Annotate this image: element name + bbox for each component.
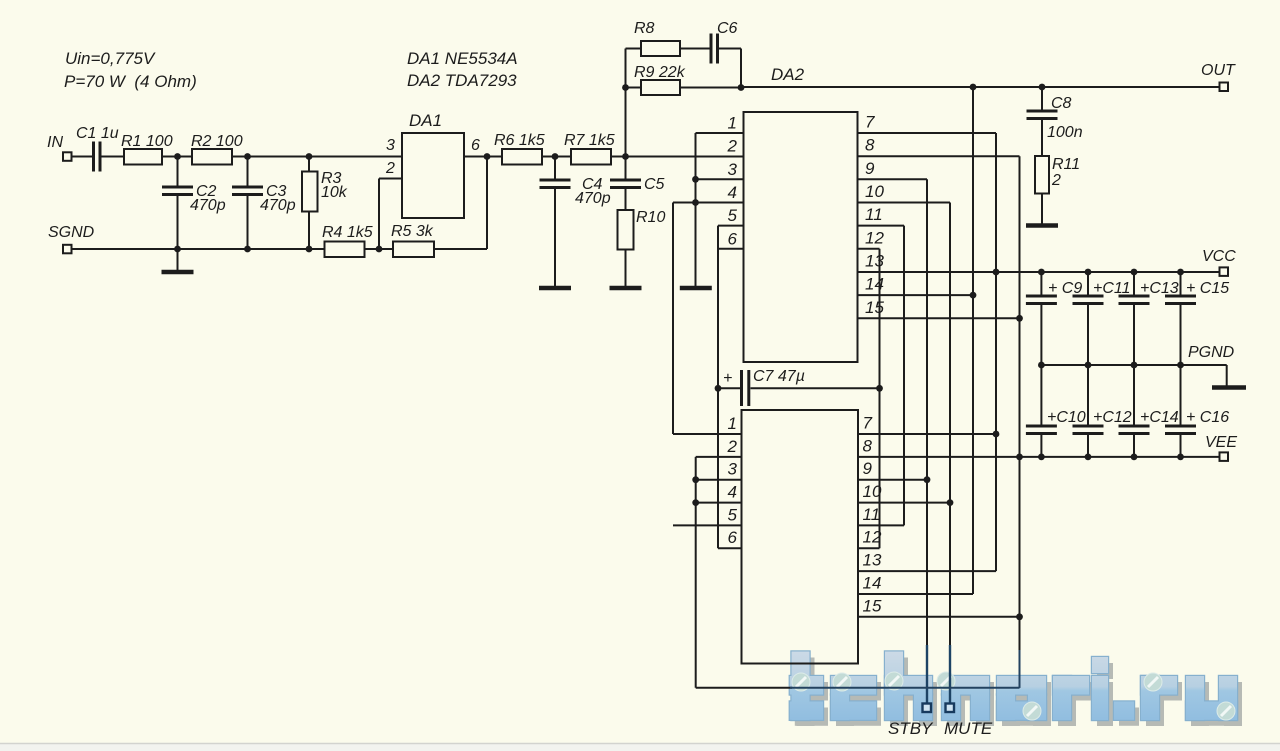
svg-text:3: 3 <box>386 137 395 154</box>
svg-text:R8: R8 <box>634 20 655 37</box>
svg-text:STBY: STBY <box>888 719 934 738</box>
svg-text:5: 5 <box>728 505 738 524</box>
svg-text:3: 3 <box>728 160 738 179</box>
svg-text:13: 13 <box>863 551 882 570</box>
svg-text:10: 10 <box>865 182 884 201</box>
svg-text:R10: R10 <box>636 209 665 226</box>
svg-text:6: 6 <box>728 528 738 547</box>
svg-text:10k: 10k <box>321 184 348 201</box>
svg-text:11: 11 <box>863 505 881 524</box>
svg-text:+ C16: + C16 <box>1186 409 1229 426</box>
svg-text:15: 15 <box>863 596 882 615</box>
svg-text:470p: 470p <box>190 197 226 214</box>
svg-text:PGND: PGND <box>1188 344 1235 361</box>
svg-text:R2 100: R2 100 <box>191 133 243 150</box>
svg-text:VEE: VEE <box>1205 434 1237 451</box>
svg-text:IN: IN <box>47 134 63 151</box>
svg-text:C8: C8 <box>1051 95 1072 112</box>
svg-text:R6 1k5: R6 1k5 <box>494 132 545 149</box>
svg-text:VCC: VCC <box>1202 248 1236 265</box>
svg-text:12: 12 <box>865 228 884 247</box>
svg-text:+C10: +C10 <box>1047 409 1086 426</box>
svg-text:C5: C5 <box>644 176 665 193</box>
svg-text:8: 8 <box>865 136 875 155</box>
svg-text:SGND: SGND <box>48 224 95 241</box>
svg-text:DA1: DA1 <box>409 111 442 130</box>
svg-text:8: 8 <box>863 436 873 455</box>
svg-text:470p: 470p <box>575 190 611 207</box>
svg-text:11: 11 <box>865 205 883 224</box>
svg-text:9: 9 <box>865 159 875 178</box>
svg-text:4: 4 <box>728 183 737 202</box>
svg-text:P=70 W (4 Ohm): P=70 W (4 Ohm) <box>64 72 197 91</box>
svg-text:2: 2 <box>385 160 395 177</box>
svg-text:DA2: DA2 <box>771 65 805 84</box>
svg-text:R9 22k: R9 22k <box>634 64 686 81</box>
svg-text:5: 5 <box>728 206 738 225</box>
svg-text:OUT: OUT <box>1201 62 1236 79</box>
svg-text:470p: 470p <box>260 197 296 214</box>
svg-text:Uin=0,775V: Uin=0,775V <box>65 49 156 68</box>
svg-text:+C11: +C11 <box>1093 280 1131 297</box>
svg-text:7: 7 <box>863 414 873 433</box>
svg-text:R4 1k5: R4 1k5 <box>322 224 373 241</box>
svg-text:13: 13 <box>865 252 884 271</box>
svg-text:C7 47µ: C7 47µ <box>753 368 805 385</box>
svg-text:3: 3 <box>728 460 738 479</box>
svg-text:2: 2 <box>727 137 738 156</box>
svg-text:C6: C6 <box>717 20 738 37</box>
svg-text:2: 2 <box>1051 172 1061 189</box>
svg-text:15: 15 <box>865 298 884 317</box>
svg-text:R5 3k: R5 3k <box>391 223 434 240</box>
svg-text:7: 7 <box>865 113 875 132</box>
svg-text:1: 1 <box>728 414 737 433</box>
svg-text:9: 9 <box>863 459 873 478</box>
svg-text:C1 1u: C1 1u <box>76 125 119 142</box>
svg-text:6: 6 <box>471 137 480 154</box>
svg-text:+C14: +C14 <box>1140 409 1179 426</box>
svg-text:MUTE: MUTE <box>944 719 993 738</box>
svg-text:DA2 TDA7293: DA2 TDA7293 <box>407 71 517 90</box>
svg-text:4: 4 <box>728 483 737 502</box>
svg-text:+ C15: + C15 <box>1186 280 1229 297</box>
svg-text:R1 100: R1 100 <box>121 133 173 150</box>
svg-text:+ C9: + C9 <box>1048 280 1082 297</box>
svg-text:10: 10 <box>863 482 882 501</box>
svg-text:12: 12 <box>863 528 882 547</box>
svg-text:+: + <box>723 370 732 387</box>
svg-text:DA1 NE5534A: DA1 NE5534A <box>407 49 518 68</box>
svg-text:14: 14 <box>865 275 884 294</box>
svg-text:2: 2 <box>727 437 738 456</box>
svg-text:R11: R11 <box>1052 156 1080 173</box>
svg-text:R7 1k5: R7 1k5 <box>564 132 615 149</box>
svg-text:14: 14 <box>863 574 882 593</box>
svg-text:6: 6 <box>728 229 738 248</box>
svg-text:100n: 100n <box>1047 124 1083 141</box>
svg-text:+C13: +C13 <box>1140 280 1179 297</box>
svg-text:+C12: +C12 <box>1093 409 1132 426</box>
svg-text:1: 1 <box>728 114 737 133</box>
